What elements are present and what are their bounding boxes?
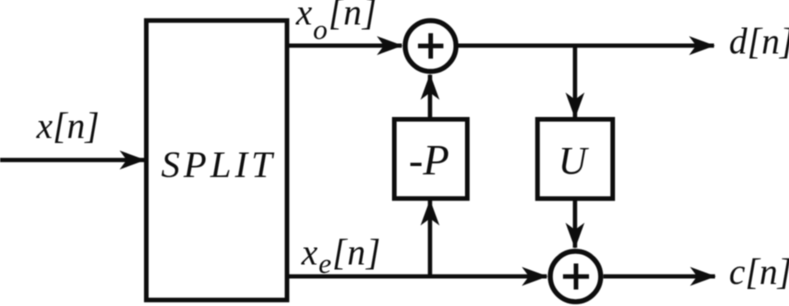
adder S1 (top) <box>405 21 456 72</box>
block U <box>538 119 613 198</box>
wire input x[n] <box>0 158 145 162</box>
svg-text:SPLIT: SPLIT <box>161 145 276 186</box>
wire -P to top adder <box>428 75 432 120</box>
wire xe[n]: SPLIT to bottom adder <box>287 274 547 278</box>
svg-text:xe[n]: xe[n] <box>301 231 382 280</box>
wire junction up to -P <box>428 201 432 277</box>
wire xo[n]: SPLIT to top adder <box>287 43 402 47</box>
svg-text:-P: -P <box>409 138 450 185</box>
svg-text:c[n]: c[n] <box>729 251 789 292</box>
plus sign in S2 <box>563 274 589 279</box>
wire bottom adder to c[n] <box>603 274 715 278</box>
svg-text:U: U <box>558 139 589 183</box>
svg-text:xo[n]: xo[n] <box>295 0 377 46</box>
adder S2 (bottom) <box>550 251 600 301</box>
block -P <box>394 119 467 198</box>
wire U to bottom adder <box>573 199 577 248</box>
wire top adder to d[n] <box>458 43 714 47</box>
wire branch down to U <box>573 46 577 118</box>
plus sign in S1 <box>418 44 443 49</box>
block SPLIT <box>146 21 287 301</box>
svg-text:x[n]: x[n] <box>36 105 100 146</box>
svg-text:d[n]: d[n] <box>729 21 789 62</box>
